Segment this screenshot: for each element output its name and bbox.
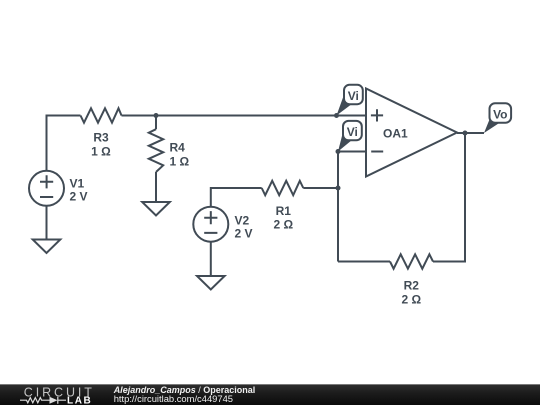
wire: feedback left vertical — [337, 152, 339, 262]
flag Vi (inverting input) — [338, 134, 352, 152]
svg-text:R3: R3 — [93, 131, 109, 145]
wire: R4 bottom lead — [155, 172, 157, 202]
wire: V1 top lead up to node row — [47, 116, 81, 171]
svg-text:OA1: OA1 — [383, 127, 408, 141]
wire: R4 top lead — [155, 116, 157, 130]
svg-text:R1: R1 — [276, 204, 292, 218]
node: output junction — [463, 131, 468, 136]
logo wire symbol — [20, 397, 66, 404]
node: - input junction — [336, 149, 341, 154]
op-amp plus input symbol — [371, 109, 383, 121]
svg-text:R2: R2 — [404, 278, 420, 292]
wire: V1 bottom lead — [46, 206, 48, 240]
svg-text:1 Ω: 1 Ω — [91, 145, 111, 159]
wire: inverting input stub — [338, 151, 366, 153]
svg-text:2 V: 2 V — [70, 190, 88, 204]
ground (under R4) — [142, 202, 170, 216]
node: R3/R4 junction — [154, 113, 159, 118]
svg-text:2 Ω: 2 Ω — [273, 217, 293, 231]
resistor R4 — [149, 129, 163, 172]
svg-text:V2: V2 — [235, 213, 250, 227]
svg-text:1 Ω: 1 Ω — [170, 155, 190, 169]
wire: feedback bottom left — [338, 261, 390, 263]
voltage source V1 — [29, 171, 64, 206]
wire: V2 bottom lead — [210, 242, 212, 276]
flag Vi (non-inverting input) — [337, 98, 353, 116]
footer bar — [0, 384, 540, 405]
svg-text:Vo: Vo — [493, 107, 507, 121]
wire: R1 to feedback node — [303, 187, 338, 189]
ground (under V1) — [33, 240, 61, 254]
wire: V2 top lead to R1 — [211, 188, 262, 207]
wire: feedback bottom right and right vertical — [433, 133, 465, 262]
op-amp OA1 — [366, 89, 457, 177]
svg-text:Vi: Vi — [348, 89, 359, 103]
svg-text:LAB: LAB — [67, 395, 92, 406]
resistor R2 — [390, 254, 433, 268]
resistor R1 — [262, 181, 304, 195]
op-amp minus input symbol — [371, 151, 383, 153]
svg-text:2 Ω: 2 Ω — [401, 292, 421, 306]
flag Vo (output) — [484, 117, 500, 133]
svg-text:Vi: Vi — [347, 125, 358, 139]
CircuitLab logo — [0, 385, 110, 406]
resistor R3 — [81, 108, 122, 122]
svg-text:R4: R4 — [170, 141, 186, 155]
voltage source V2 — [193, 207, 228, 242]
node: R1/feedback junction — [336, 186, 341, 191]
node: + input junction — [334, 113, 339, 118]
footer credit text — [114, 386, 256, 404]
wire: R3 to op-amp + input — [122, 115, 367, 117]
wire: output — [457, 132, 484, 134]
svg-text:V1: V1 — [70, 177, 85, 191]
svg-text:2 V: 2 V — [235, 226, 253, 240]
ground (under V2) — [197, 276, 225, 290]
